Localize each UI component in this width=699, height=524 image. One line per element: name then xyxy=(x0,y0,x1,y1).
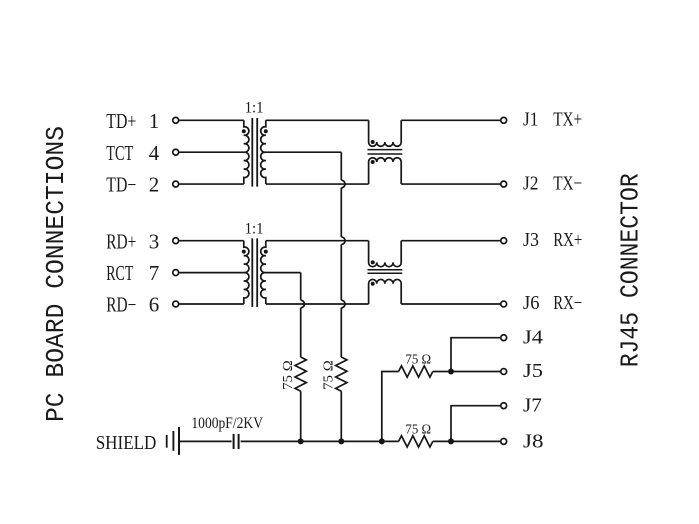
junction node R3 branch bus xyxy=(379,438,385,444)
svg-text:J3: J3 xyxy=(523,229,539,251)
polarity dot T1 secondary xyxy=(264,129,268,133)
wire hop T1 tap over TD- wire xyxy=(341,180,345,188)
terminal pin 7 RCT xyxy=(173,270,179,276)
choke L2 core xyxy=(368,270,403,274)
polarity dot L1 top xyxy=(371,140,375,144)
choke L2 bottom winding xyxy=(369,279,402,304)
svg-text:TX+: TX+ xyxy=(553,109,582,131)
terminal J2 xyxy=(501,181,507,187)
wire hop T1 tap over RD+ wire xyxy=(341,237,345,245)
resistor R3 75 ohm xyxy=(399,366,433,377)
choke L1 top winding xyxy=(369,120,402,146)
wire RD+ to T2 primary top xyxy=(179,240,244,242)
svg-text:75 Ω: 75 Ω xyxy=(281,360,296,390)
terminal J6 xyxy=(501,301,507,307)
wire TD- to T1 primary bottom xyxy=(179,183,244,185)
shield terminal bar tall xyxy=(178,427,180,455)
resistor R4 75 ohm xyxy=(399,436,433,447)
wire choke L1 top to J1 xyxy=(401,119,500,121)
wire TD+ to T1 primary top xyxy=(179,119,244,121)
svg-text:RX−: RX− xyxy=(553,292,582,314)
wire hop T1 tap over RD- wire xyxy=(341,300,345,308)
shield terminal bar short xyxy=(166,435,168,448)
terminal J5 xyxy=(501,369,507,375)
terminal pin 2 TD- xyxy=(173,181,179,187)
wire T1 secondary top to choke L1 xyxy=(266,119,369,121)
svg-text:TD−: TD− xyxy=(106,173,136,197)
wire T1 tap vertical to R2 xyxy=(340,152,342,357)
svg-text:J8: J8 xyxy=(523,430,544,452)
wire T2 secondary top to choke L2 xyxy=(266,240,369,242)
svg-text:RD−: RD− xyxy=(106,293,136,317)
svg-text:1:1: 1:1 xyxy=(245,221,264,238)
svg-text:J7: J7 xyxy=(523,394,542,416)
terminal pin 1 TD+ xyxy=(173,117,179,123)
resistor R2 75 ohm xyxy=(336,357,347,391)
wire choke L2 top to J3 xyxy=(401,240,500,242)
svg-text:1:1: 1:1 xyxy=(245,100,264,117)
svg-text:RCT: RCT xyxy=(106,261,133,285)
shield terminal bar middle xyxy=(172,431,174,451)
wire TCT to T1 primary tap xyxy=(179,151,244,153)
svg-text:TD+: TD+ xyxy=(106,109,136,133)
svg-text:75 Ω: 75 Ω xyxy=(405,423,431,438)
wire C1 to shield bus xyxy=(241,440,399,442)
svg-text:1000pF/2KV: 1000pF/2KV xyxy=(191,415,263,432)
polarity dot L2 top xyxy=(371,260,375,264)
wire T1 secondary bottom to choke L1 xyxy=(266,183,369,185)
terminal pin 3 RD+ xyxy=(173,238,179,244)
wire choke L1 bottom to J2 xyxy=(401,183,500,185)
wire node to J4 xyxy=(451,338,501,372)
svg-text:75 Ω: 75 Ω xyxy=(405,352,431,367)
polarity dot L1 bottom xyxy=(371,160,375,164)
choke L2 top winding xyxy=(369,241,402,267)
junction node J4 J5 xyxy=(448,369,454,375)
svg-text:PC BOARD CONNECTIONS: PC BOARD CONNECTIONS xyxy=(41,126,71,422)
wire T2 secondary tap to node xyxy=(266,272,301,274)
svg-text:3: 3 xyxy=(149,229,160,253)
capacitor C1 plates xyxy=(234,434,239,449)
polarity dot L2 bottom xyxy=(371,282,375,286)
svg-text:RX+: RX+ xyxy=(553,229,582,251)
wire RCT to T2 primary tap xyxy=(179,272,244,274)
wire R3 to J5 xyxy=(433,371,501,373)
wire node to J7 xyxy=(451,406,501,442)
wire R1 bottom to shield bus xyxy=(300,391,302,441)
resistor R1 75 ohm xyxy=(295,357,306,391)
wire hop T2 tap over RD- wire xyxy=(301,300,305,308)
svg-text:75 Ω: 75 Ω xyxy=(322,360,337,390)
junction node J7 J8 xyxy=(448,438,454,444)
terminal pin 4 TCT xyxy=(173,149,179,155)
svg-text:RJ45 CONNECTOR: RJ45 CONNECTOR xyxy=(616,173,646,367)
transformer T1 secondary winding xyxy=(261,120,266,184)
choke L1 bottom winding xyxy=(369,158,402,184)
wire T2 tap vertical to R1 xyxy=(300,273,302,357)
svg-text:J5: J5 xyxy=(523,360,543,382)
terminal J4 xyxy=(501,335,507,341)
terminal J3 xyxy=(501,238,507,244)
svg-text:SHIELD: SHIELD xyxy=(96,432,157,454)
transformer T1 core xyxy=(252,118,257,187)
junction node R2 bus xyxy=(338,438,344,444)
svg-text:2: 2 xyxy=(149,173,160,197)
wire R4 to J8 xyxy=(433,440,501,442)
terminal J8 xyxy=(501,438,507,444)
svg-text:6: 6 xyxy=(149,293,160,317)
svg-text:J6: J6 xyxy=(523,292,540,314)
wire R2 bottom to shield bus xyxy=(340,391,342,441)
svg-text:TCT: TCT xyxy=(106,141,133,165)
svg-text:J1: J1 xyxy=(523,109,539,131)
svg-text:TX−: TX− xyxy=(553,172,582,194)
transformer T1 primary winding xyxy=(244,120,249,184)
choke L1 core xyxy=(368,150,403,154)
wire shield to capacitor C1 xyxy=(180,440,232,442)
wire RD- to T2 primary bottom xyxy=(179,303,244,305)
svg-text:J2: J2 xyxy=(523,172,539,194)
junction node R1 bus xyxy=(298,438,304,444)
transformer T2 primary winding xyxy=(244,241,249,304)
terminal J7 xyxy=(501,403,507,409)
wire choke L2 bottom to J6 xyxy=(401,303,500,305)
svg-text:J4: J4 xyxy=(523,326,543,348)
transformer T2 core xyxy=(252,238,257,307)
polarity dot T2 primary xyxy=(242,250,246,254)
svg-text:RD+: RD+ xyxy=(106,229,136,253)
wire shield bus up to R3 xyxy=(382,372,399,442)
wire T2 secondary bottom to choke L2 xyxy=(266,303,369,305)
polarity dot T1 primary xyxy=(242,129,246,133)
wire T1 secondary tap to node xyxy=(266,151,342,153)
svg-text:1: 1 xyxy=(149,109,160,133)
terminal pin 6 RD- xyxy=(173,301,179,307)
transformer T2 secondary winding xyxy=(261,241,266,304)
terminal J1 xyxy=(501,117,507,123)
svg-text:4: 4 xyxy=(149,141,160,165)
svg-text:7: 7 xyxy=(149,261,160,285)
polarity dot T2 secondary xyxy=(264,250,268,254)
